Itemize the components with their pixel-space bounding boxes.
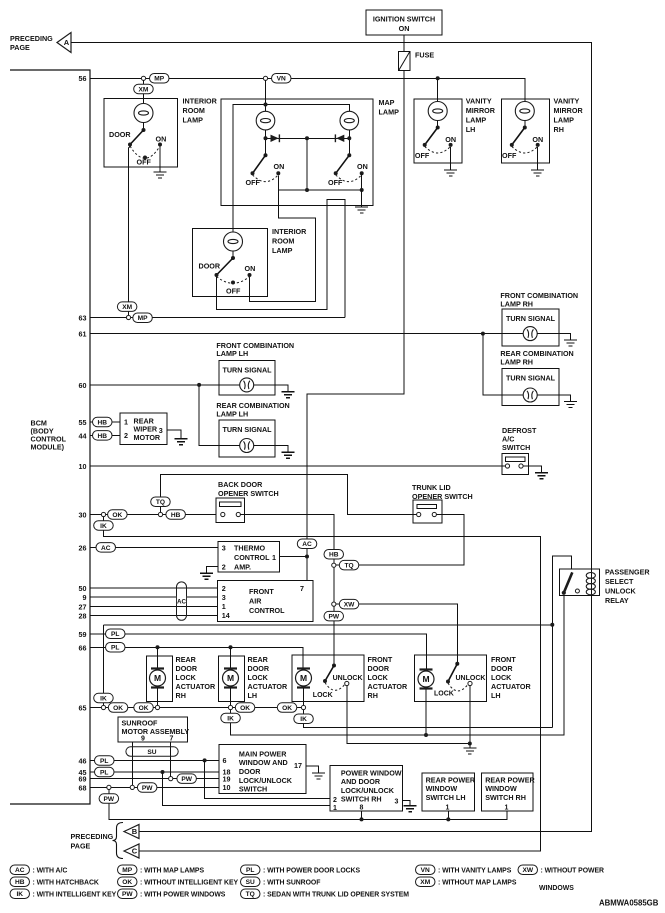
wire: PW drop to front door lock actuator RH switch xyxy=(333,606,335,665)
svg-text:VN: VN xyxy=(421,867,430,874)
svg-text:BACK DOOR: BACK DOOR xyxy=(218,480,263,489)
svg-text:OFF: OFF xyxy=(502,151,517,160)
svg-text:19: 19 xyxy=(223,774,231,783)
svg-text:LH: LH xyxy=(466,125,476,134)
svg-text:THERMO: THERMO xyxy=(234,543,266,552)
svg-text:ACTUATOR: ACTUATOR xyxy=(176,682,216,691)
svg-text:CONTROL: CONTROL xyxy=(234,553,270,562)
svg-text:: WITH HATCHBACK: : WITH HATCHBACK xyxy=(33,879,99,886)
relay contact circle xyxy=(575,589,579,593)
legend AC xyxy=(10,865,67,875)
ground unlock contacts xyxy=(463,748,476,754)
svg-text:UNLOCK: UNLOCK xyxy=(456,675,486,682)
svg-text:ON: ON xyxy=(399,24,410,33)
svg-text:IK: IK xyxy=(227,715,234,722)
svg-text:65: 65 xyxy=(79,704,87,713)
turn signal bulb rear LH xyxy=(240,439,254,453)
svg-text:SWITCH RH: SWITCH RH xyxy=(485,793,526,802)
ground thermo amp xyxy=(200,573,213,579)
svg-text:2: 2 xyxy=(222,584,226,593)
connector option oval OK 1 on net 65 xyxy=(108,703,128,713)
arrow A xyxy=(57,33,71,53)
ground vanity LH xyxy=(444,170,457,176)
defrost A/C switch box xyxy=(502,454,529,475)
svg-text:1: 1 xyxy=(222,602,226,611)
svg-text:WINDOW: WINDOW xyxy=(485,784,517,793)
svg-text:AC: AC xyxy=(101,545,111,552)
svg-text:7: 7 xyxy=(300,584,304,593)
svg-text:60: 60 xyxy=(79,381,87,390)
front door lock actuator LH switch xyxy=(446,662,459,684)
connector option oval PW on net 68 xyxy=(137,783,157,793)
svg-text:TQ: TQ xyxy=(156,499,165,506)
map lamp label xyxy=(379,98,400,117)
ground defrost switch xyxy=(535,473,548,479)
turn signal bulb front LH xyxy=(240,378,254,392)
svg-text:AC: AC xyxy=(15,867,25,874)
svg-text:PL: PL xyxy=(111,645,119,652)
svg-text:OK: OK xyxy=(139,705,149,712)
svg-text:PASSENGER: PASSENGER xyxy=(605,568,650,577)
svg-text:ON: ON xyxy=(445,135,456,144)
svg-text:AND DOOR: AND DOOR xyxy=(341,777,381,786)
front combination lamp RH label xyxy=(500,291,578,308)
svg-text:ON: ON xyxy=(274,162,285,171)
svg-text:14: 14 xyxy=(222,611,230,620)
svg-text:MIRROR: MIRROR xyxy=(554,106,584,115)
back door switch contacts xyxy=(221,512,241,516)
svg-text:PW: PW xyxy=(328,614,339,621)
svg-text:55: 55 xyxy=(79,418,87,427)
wire: diode rail xyxy=(266,130,350,155)
svg-text:HB: HB xyxy=(171,512,181,519)
svg-text:LOCK: LOCK xyxy=(491,673,512,682)
connector option oval MP on bus 56 xyxy=(150,74,170,84)
main power window and door lock/unlock switch box xyxy=(219,744,306,793)
svg-text:MIRROR: MIRROR xyxy=(466,106,496,115)
fuse xyxy=(399,52,411,71)
wire: PW drop to power window switch row xyxy=(109,790,507,820)
wire: fuse to AC junction and front air control pin 7 xyxy=(307,71,404,581)
connector option oval PW on drop xyxy=(324,611,344,621)
ground main power window switch xyxy=(312,773,325,779)
dashed arc map left xyxy=(253,175,279,182)
svg-text:OK: OK xyxy=(112,512,122,519)
svg-text:CONTROL: CONTROL xyxy=(249,606,285,615)
svg-text:VN: VN xyxy=(277,76,286,83)
wire: drop to vanity mirror lamp LH xyxy=(437,78,439,101)
svg-text:IK: IK xyxy=(300,716,307,723)
svg-text:PRECEDING: PRECEDING xyxy=(10,34,53,43)
svg-text:: WITHOUT MAP LAMPS: : WITHOUT MAP LAMPS xyxy=(438,879,517,886)
svg-text:MOTOR ASSEMBLY: MOTOR ASSEMBLY xyxy=(122,727,190,736)
svg-text:PW: PW xyxy=(181,776,192,783)
svg-text:FRONT: FRONT xyxy=(249,587,274,596)
wire net 55: BCM pin 55 to rear wiper motor pin 1 xyxy=(90,421,120,423)
wire net 44: BCM pin 44 to rear wiper motor pin 2 xyxy=(90,434,120,436)
svg-text:OK: OK xyxy=(240,705,250,712)
rear combination lamp RH turn signal box xyxy=(502,369,559,406)
svg-text:10: 10 xyxy=(223,783,231,792)
wire net 26: BCM pin 26 to thermo control amp pin 3 xyxy=(90,546,218,548)
wire: IK line from net 65 to relay (pin top) xyxy=(104,624,553,626)
interior room lamp 1 switch (DOOR/OFF/ON) xyxy=(128,128,162,160)
vanity mirror lamp RH box xyxy=(502,99,550,163)
wire: drop to interior room lamp 1 via XM xyxy=(143,80,145,103)
svg-text:LOCK: LOCK xyxy=(248,673,269,682)
connector option oval IK on branch xyxy=(94,521,114,531)
svg-text:AC: AC xyxy=(302,541,312,548)
ground front LH xyxy=(282,392,295,398)
wire: stub to ground xyxy=(469,744,471,749)
interior room lamp 2 bulb xyxy=(224,232,243,251)
connector bundle oval AC over air control harness xyxy=(177,582,187,620)
svg-text:OPENER SWITCH: OPENER SWITCH xyxy=(412,492,473,501)
svg-text:: WITH A/C: : WITH A/C xyxy=(33,867,68,874)
wire: rear LH motor to net 65 xyxy=(230,688,232,705)
connector bundle oval SU under sunroof xyxy=(126,747,178,757)
svg-text:M: M xyxy=(227,673,234,683)
svg-text:LOCK/UNLOCK: LOCK/UNLOCK xyxy=(239,776,293,785)
front door lock actuator LH label xyxy=(491,655,531,700)
svg-text:TURN SIGNAL: TURN SIGNAL xyxy=(506,373,556,382)
wire: lamp1 ON contact to ground xyxy=(159,147,161,173)
map lamp bulb right xyxy=(340,111,359,130)
svg-text:: WITHOUT INTELLIGENT KEY: : WITHOUT INTELLIGENT KEY xyxy=(140,879,238,886)
trunk lid opener switch label xyxy=(412,483,473,501)
connector option oval OK on net 30 xyxy=(108,510,128,520)
wire net 63: BCM pin 63 to room lamp door switches xyxy=(90,317,345,319)
node: front/rear RH split xyxy=(481,332,485,336)
rear combination lamp RH label xyxy=(500,349,573,366)
wire: center tap to ON bus xyxy=(306,138,308,190)
wire net 27: BCM pin 27 to air control pin 1 xyxy=(90,605,217,607)
svg-text:LAMP LH: LAMP LH xyxy=(216,409,248,418)
wire: IK riser to relay line xyxy=(103,625,105,706)
wire: thermo pin 2 to ground xyxy=(207,567,219,574)
svg-text:MP: MP xyxy=(154,76,164,83)
wire: interior room lamp 2 ON contact up to map lamp ON bus xyxy=(250,190,316,302)
node: power window switch RH pin 2 tap xyxy=(203,758,207,762)
BCM (body control module) connector frame xyxy=(10,70,90,804)
svg-text:TURN SIGNAL: TURN SIGNAL xyxy=(506,314,556,323)
wire: TQ branch to trunk lid opener switch xyxy=(336,515,464,566)
node: XW split xyxy=(332,602,336,606)
connector option oval PL on net 45 xyxy=(95,767,115,777)
connector option oval IK on riser xyxy=(94,693,114,703)
svg-text:ACTUATOR: ACTUATOR xyxy=(368,682,408,691)
svg-text:30: 30 xyxy=(79,511,87,520)
ground power window switch RH xyxy=(404,806,417,812)
svg-text:FUSE: FUSE xyxy=(415,51,434,60)
svg-text:: WITH INTELLIGENT KEY: : WITH INTELLIGENT KEY xyxy=(33,891,117,898)
arrow C xyxy=(124,844,139,858)
svg-text:SU: SU xyxy=(147,749,156,756)
wire net 56: BCM pin 56 lamp feed bus xyxy=(90,78,525,101)
trunk lid switch contacts xyxy=(417,512,437,516)
svg-text:OFF: OFF xyxy=(226,287,241,296)
wire: main switch pin 17 to ground xyxy=(306,766,319,773)
svg-text:AIR: AIR xyxy=(249,597,262,606)
vanity mirror lamp RH bulb xyxy=(515,102,534,121)
svg-text:FRONT: FRONT xyxy=(368,655,393,664)
connector option oval PL on net 46 xyxy=(95,756,115,766)
wire net 66: BCM pin 66 to door lock actuators xyxy=(90,647,303,668)
svg-text:HB: HB xyxy=(97,419,107,426)
wire: vanity RH ON contact to ground xyxy=(537,147,539,170)
node: rear LH motor junction xyxy=(228,705,232,709)
dashed arc lamp2 xyxy=(217,277,250,284)
svg-text:61: 61 xyxy=(79,330,87,339)
wire: relay top pin riser xyxy=(552,556,571,728)
svg-text:44: 44 xyxy=(79,431,87,440)
svg-text:69: 69 xyxy=(79,775,87,784)
connector option oval IK on rear LH stub xyxy=(221,713,241,723)
svg-text:VANITY: VANITY xyxy=(466,97,492,106)
wire: TQ branch up and over to trunk lid opener switch xyxy=(161,475,417,515)
svg-text:AMP.: AMP. xyxy=(234,562,251,571)
vanity mirror lamp LH bulb xyxy=(428,102,447,121)
svg-text:IK: IK xyxy=(100,695,107,702)
power window and door lock/unlock switch RH box xyxy=(330,766,402,812)
dashed arc map right xyxy=(336,175,362,182)
vanity mirror lamp RH label xyxy=(554,97,584,135)
node: rear RH motor junction xyxy=(155,705,159,709)
wire: front RH motor to net 65 xyxy=(303,688,305,705)
svg-text:ROOM: ROOM xyxy=(272,237,294,246)
connector option oval PW on drop xyxy=(99,794,119,804)
connector option oval AC on net 26 xyxy=(96,543,116,553)
front combination lamp LH label xyxy=(216,341,294,358)
node: PW drop split on net 68 xyxy=(107,785,111,789)
wire net 68: BCM pin 68 to main power window switch pin 10 xyxy=(90,786,219,788)
ground rear RH xyxy=(564,402,577,408)
wire net 9: BCM pin 9 to air control pin 3 xyxy=(90,596,217,598)
preceding page label (top) xyxy=(10,34,53,52)
legend TQ xyxy=(241,889,410,899)
svg-text:2: 2 xyxy=(333,797,337,804)
wire net 59: BCM pin 59 to front door lock actuator LH xyxy=(90,634,426,671)
svg-text:DOOR: DOOR xyxy=(491,664,513,673)
svg-text:PW: PW xyxy=(142,785,153,792)
node: split to map lamp xyxy=(263,76,267,80)
svg-text:OK: OK xyxy=(282,705,292,712)
legend PW xyxy=(118,889,226,899)
wire: sunroof pin 7 to net 69 xyxy=(170,742,172,777)
legend XW xyxy=(518,865,604,875)
wire: lamp1 DOOR pivot down to net 63 xyxy=(129,147,131,316)
front door lock actuator RH switch xyxy=(323,664,336,684)
svg-text:PL: PL xyxy=(111,631,119,638)
node: left bulb / diode anode xyxy=(264,136,268,140)
dashed arc front LH lock switch xyxy=(448,683,468,691)
svg-text:1: 1 xyxy=(446,804,450,811)
trunk lid opener switch box xyxy=(413,500,442,523)
wire: ON bus to ground below box xyxy=(361,190,363,207)
svg-text:10: 10 xyxy=(79,462,87,471)
wire: switch RH pin 3 to ground xyxy=(402,801,410,806)
svg-text:OK: OK xyxy=(113,705,123,712)
wire net 45: BCM pin 45 to main power window switch pin 18 xyxy=(90,771,219,773)
node: ON bus center xyxy=(305,188,309,192)
svg-text:2: 2 xyxy=(222,562,226,571)
connector option oval XM on drop xyxy=(134,84,154,94)
svg-text:1: 1 xyxy=(124,418,128,427)
connector option oval PL on net 59 xyxy=(106,629,126,639)
svg-text:HB: HB xyxy=(15,879,25,886)
connector option oval PW on net 69 xyxy=(177,774,197,784)
node: XM/MP split on net 63 xyxy=(126,315,130,319)
node: diode center tap xyxy=(305,136,309,140)
svg-text:UNLOCK: UNLOCK xyxy=(333,675,363,682)
wire: relay riser lower leg to front RH IK stub xyxy=(304,710,553,728)
svg-text:66: 66 xyxy=(79,643,87,652)
wire: drop to map lamp feed xyxy=(265,80,267,111)
svg-text:POWER WINDOW: POWER WINDOW xyxy=(341,768,402,777)
svg-text:TQ: TQ xyxy=(344,563,353,570)
svg-text:TURN SIGNAL: TURN SIGNAL xyxy=(222,425,272,434)
wire net 50: BCM pin 50 to air control pin 2 xyxy=(90,587,217,589)
wire: drop to rear combination lamp LH xyxy=(199,385,220,446)
svg-text:HB: HB xyxy=(97,433,107,440)
svg-text:68: 68 xyxy=(79,783,87,792)
node: sunroof pin 7 junction xyxy=(169,777,173,781)
wire net 65: BCM pin 65 lock/unlock return xyxy=(90,707,304,709)
connector option oval IK on front RH stub xyxy=(294,714,314,724)
defrost A/C switch label xyxy=(502,426,537,452)
wire: thermo pin 1 to AC node xyxy=(280,556,307,558)
wire: unlock contacts to common ground xyxy=(347,686,470,744)
svg-text:DOOR: DOOR xyxy=(176,664,198,673)
svg-text:LAMP: LAMP xyxy=(272,246,293,255)
back door opener switch label xyxy=(218,480,279,498)
svg-text:REAR POWER: REAR POWER xyxy=(485,775,535,784)
map lamp bulb left xyxy=(256,111,275,130)
svg-text:WINDOWS: WINDOWS xyxy=(539,885,574,892)
svg-text:LOCK: LOCK xyxy=(368,673,389,682)
svg-text:ABMWA0585GB: ABMWA0585GB xyxy=(599,899,659,908)
ignition switch ON box xyxy=(366,10,442,35)
svg-text:REAR: REAR xyxy=(248,655,269,664)
svg-text:46: 46 xyxy=(79,756,87,765)
connector option oval OK 2 on net 65 xyxy=(134,703,154,713)
node: unlock ground junction xyxy=(468,742,472,746)
svg-text:OPENER SWITCH: OPENER SWITCH xyxy=(218,489,279,498)
dashed arc vanity LH xyxy=(425,146,451,153)
connector option oval AC on fuse branch xyxy=(297,539,317,549)
svg-text:DOOR: DOOR xyxy=(199,261,221,270)
passenger select unlock relay label xyxy=(605,568,650,606)
svg-text:PL: PL xyxy=(100,758,108,765)
svg-text:59: 59 xyxy=(79,630,87,639)
svg-text:PW: PW xyxy=(104,796,115,803)
rear door lock actuator LH motor xyxy=(223,669,239,688)
connector option oval MP on net 63 xyxy=(133,313,153,323)
svg-text:28: 28 xyxy=(79,611,87,620)
ground vanity RH xyxy=(531,170,544,176)
svg-text:7: 7 xyxy=(170,736,174,743)
svg-text:RH: RH xyxy=(176,691,186,700)
svg-text:MODULE): MODULE) xyxy=(31,443,65,452)
svg-text:: WITHOUT POWER: : WITHOUT POWER xyxy=(541,867,604,874)
wire net A: battery line from arrow A to relay coil and arrow B xyxy=(71,43,592,832)
wire: relay blade pin down to front LH motor and rear LH IK stub xyxy=(231,595,565,735)
connector option oval XM on lamp1 drop xyxy=(117,302,136,312)
node: rear LH pin 1 junction xyxy=(446,817,450,821)
svg-text:SWITCH: SWITCH xyxy=(502,443,530,452)
svg-text:DOOR: DOOR xyxy=(248,664,270,673)
svg-text:WINDOW AND: WINDOW AND xyxy=(239,758,288,767)
node: pin 8 junction xyxy=(360,817,364,821)
svg-text:C: C xyxy=(132,847,138,856)
svg-text:ACTUATOR: ACTUATOR xyxy=(248,682,288,691)
wire: bulb2 to switch xyxy=(232,251,234,258)
unlock contact front RH xyxy=(345,681,349,685)
svg-text:27: 27 xyxy=(79,602,87,611)
svg-text:SUNROOF: SUNROOF xyxy=(122,718,159,727)
svg-text:: SEDAN WITH TRUNK LID OPENER: : SEDAN WITH TRUNK LID OPENER SYSTEM xyxy=(263,891,409,898)
svg-text:B: B xyxy=(132,827,138,836)
ground rear LH xyxy=(282,452,295,458)
node: relay blade line junction xyxy=(424,733,428,737)
dashed arc vanity RH xyxy=(512,146,538,153)
svg-text:9: 9 xyxy=(83,593,87,602)
front door lock actuator RH label xyxy=(368,655,408,700)
svg-text:M: M xyxy=(300,673,307,683)
back door opener switch box xyxy=(216,498,244,523)
wire: drop to switch RH pin 2 xyxy=(205,760,331,798)
svg-text:INTERIOR: INTERIOR xyxy=(183,96,218,105)
vanity mirror lamp LH label xyxy=(466,97,496,135)
interior room lamp 1 bulb xyxy=(134,104,153,123)
passenger select unlock relay box xyxy=(559,569,599,596)
rear door lock actuator RH box xyxy=(146,656,172,702)
connector option oval HB on net 30 xyxy=(166,510,186,520)
svg-text:3: 3 xyxy=(395,799,399,806)
relay blade xyxy=(562,572,573,595)
svg-text:AC: AC xyxy=(177,598,186,605)
svg-text:63: 63 xyxy=(79,314,87,323)
BCM label text xyxy=(31,419,67,452)
svg-text:XW: XW xyxy=(522,867,533,874)
vanity mirror lamp RH switch xyxy=(510,121,540,147)
wire: drop to rear combination lamp RH xyxy=(483,334,503,395)
svg-text:RH: RH xyxy=(554,125,564,134)
brace for preceding page arrows xyxy=(113,823,124,859)
svg-text:LAMP RH: LAMP RH xyxy=(500,357,533,366)
svg-text:OFF: OFF xyxy=(137,158,152,167)
vanity mirror lamp LH switch xyxy=(423,121,453,147)
svg-text:26: 26 xyxy=(79,543,87,552)
node: rear LH actuator tap xyxy=(229,645,233,649)
rear combination lamp LH label xyxy=(216,401,289,418)
svg-text:PW: PW xyxy=(122,891,133,898)
relay coil xyxy=(586,573,595,595)
diode right (cathode left) xyxy=(335,134,344,142)
node: IK split on net 30 xyxy=(101,512,105,516)
wire: through bulb front RH xyxy=(503,334,571,340)
svg-text:DOOR: DOOR xyxy=(368,664,390,673)
wire: sunroof pin 9 to net 68 xyxy=(131,742,133,785)
wire net 46: BCM pin 46 to main power window switch pin 6 xyxy=(90,759,219,761)
svg-text:6: 6 xyxy=(223,756,227,765)
svg-text:A: A xyxy=(64,38,70,47)
defrost switch contacts xyxy=(505,464,523,468)
svg-text:LAMP: LAMP xyxy=(466,116,487,125)
node: split to interior room lamp (without map lamps) xyxy=(141,76,145,80)
node: front RH motor junction xyxy=(301,705,305,709)
svg-text:LOCK: LOCK xyxy=(176,673,197,682)
